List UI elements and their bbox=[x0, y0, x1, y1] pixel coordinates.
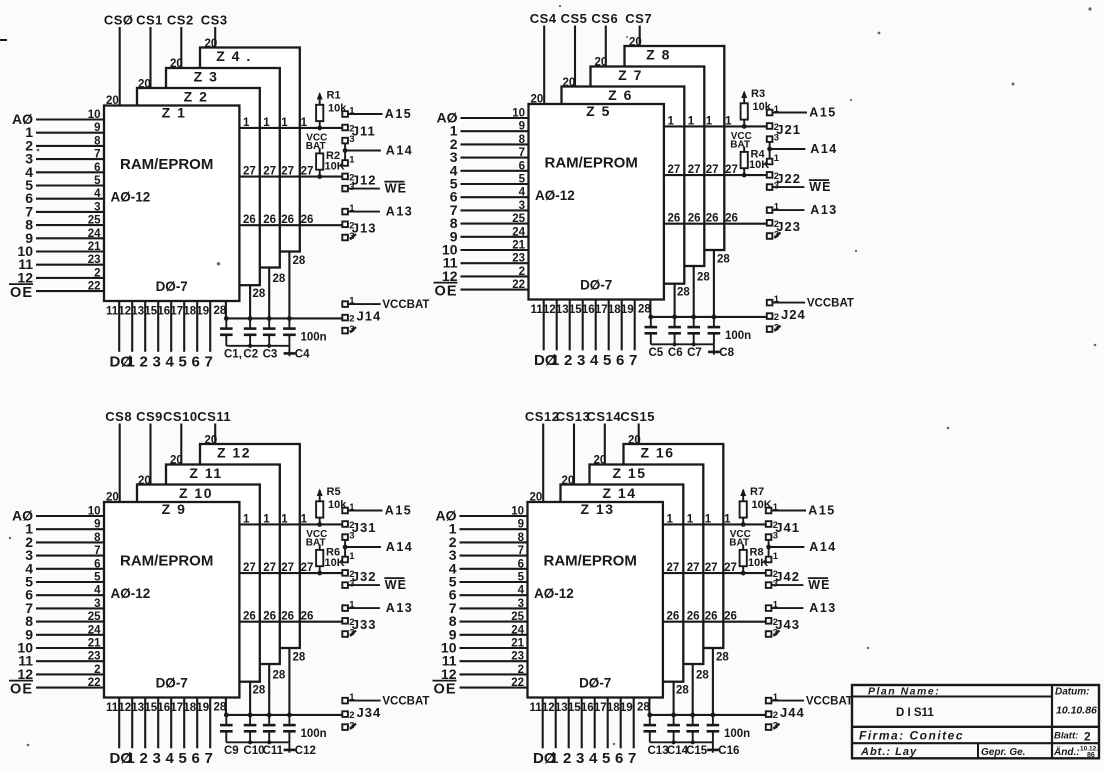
svg-text:26: 26 bbox=[301, 214, 314, 226]
IC Z 15 (RAM/EPROM) bbox=[590, 465, 704, 665]
wire CS2 to Z 3 pin 20 bbox=[180, 27, 182, 68]
svg-text:100n: 100n bbox=[725, 330, 751, 342]
svg-text:AØ-12: AØ-12 bbox=[111, 586, 151, 601]
svg-text:6: 6 bbox=[615, 750, 623, 766]
junction node A14 tap bbox=[767, 147, 772, 152]
connector J23 bbox=[767, 202, 801, 241]
wire 8 to Z 13 pin 25 bbox=[460, 621, 528, 623]
IC Z 16 (RAM/EPROM) bbox=[624, 444, 724, 648]
svg-text:23: 23 bbox=[88, 254, 101, 266]
junction node cap common 2 bbox=[267, 740, 271, 744]
svg-text:C13: C13 bbox=[648, 745, 669, 757]
svg-text:A14: A14 bbox=[809, 540, 836, 554]
wire CS13 to Z 14 pin 20 bbox=[573, 424, 575, 485]
IC Z 4 (RAM/EPROM) bbox=[200, 48, 300, 252]
svg-text:28: 28 bbox=[716, 652, 729, 664]
wire data D2 to Z 9 pin 13 bbox=[144, 698, 146, 749]
J34 pin 3 tick mark bbox=[350, 724, 356, 730]
svg-text:3: 3 bbox=[576, 750, 584, 766]
wire J pin3 to WE bbox=[348, 584, 380, 586]
wire data D0 to Z 9 pin 11 bbox=[118, 698, 120, 749]
wire 7 to Z 13 pin 3 bbox=[460, 607, 528, 609]
svg-text:C16: C16 bbox=[718, 745, 739, 757]
svg-text:1: 1 bbox=[243, 117, 250, 129]
svg-text:24: 24 bbox=[88, 624, 101, 636]
svg-text:28: 28 bbox=[717, 254, 730, 266]
junction node capacitor/bus bbox=[267, 713, 272, 718]
svg-text:2: 2 bbox=[140, 750, 148, 766]
IC Z 13 (RAM/EPROM) bbox=[528, 501, 663, 698]
svg-text:20: 20 bbox=[106, 95, 119, 107]
junction node cap common 1 bbox=[248, 344, 252, 348]
junction node capacitor/bus bbox=[690, 713, 695, 718]
wire J pin1 to A15 bbox=[348, 510, 383, 512]
wire 4 to Z 9 pin 6 bbox=[36, 568, 104, 570]
junction node R7/pin1 row bbox=[741, 522, 746, 527]
wire 1 to Z 9 pin 9 bbox=[36, 528, 104, 530]
svg-text:4: 4 bbox=[94, 585, 101, 597]
connector J44 bbox=[766, 692, 805, 732]
wire OE to Z 5 pin 22 bbox=[461, 289, 529, 291]
wire Z 2 pin 28 to VCCBAT bus bbox=[249, 285, 251, 318]
svg-text:21: 21 bbox=[511, 638, 524, 650]
wire Z 4 pin 28 to VCCBAT bus bbox=[288, 252, 290, 319]
svg-text:8: 8 bbox=[519, 134, 526, 146]
svg-text:26: 26 bbox=[688, 213, 701, 225]
svg-text:27: 27 bbox=[688, 164, 701, 176]
svg-text:15: 15 bbox=[569, 304, 582, 316]
svg-text:Z 14: Z 14 bbox=[602, 485, 636, 501]
wire CS8 to Z 9 pin 20 bbox=[119, 424, 121, 503]
svg-text:25: 25 bbox=[512, 213, 525, 225]
connector J32 bbox=[342, 551, 376, 590]
svg-text:5: 5 bbox=[94, 572, 101, 584]
svg-text:26: 26 bbox=[243, 611, 256, 623]
svg-text:J21: J21 bbox=[776, 122, 801, 137]
svg-text:22: 22 bbox=[88, 281, 101, 293]
svg-text:3: 3 bbox=[577, 352, 585, 369]
wire data D3 to Z 9 pin 15 bbox=[157, 698, 159, 749]
svg-text:5: 5 bbox=[518, 572, 525, 584]
svg-text:12: 12 bbox=[17, 269, 33, 285]
wire data D6 to Z 13 pin 18 bbox=[620, 698, 622, 749]
svg-text:28: 28 bbox=[677, 287, 690, 299]
connector J13 bbox=[342, 203, 376, 242]
IC Z 5 (RAM/EPROM) bbox=[529, 103, 664, 300]
IC Z 8 (RAM/EPROM) bbox=[625, 46, 725, 250]
wire J pin1 to A15 bbox=[348, 113, 383, 115]
capacitor C6 100n bbox=[668, 317, 681, 344]
wire data D2 to Z 13 pin 13 bbox=[568, 698, 570, 749]
wire data D2 to Z 5 pin 13 bbox=[569, 300, 571, 351]
svg-text:22: 22 bbox=[88, 677, 101, 689]
connector J33 bbox=[342, 600, 376, 639]
svg-text:4: 4 bbox=[166, 354, 175, 371]
svg-text:17: 17 bbox=[170, 306, 183, 318]
wire 9 to Z 13 pin 24 bbox=[460, 634, 528, 636]
wire J pin1 to A13 bbox=[771, 607, 803, 609]
wire VCCBAT bus (pin 28 row) bbox=[226, 714, 342, 716]
svg-text:J13: J13 bbox=[352, 220, 377, 235]
wire pin 1 row (A15/CS side) bbox=[239, 127, 342, 129]
svg-text:CSØ: CSØ bbox=[104, 12, 134, 27]
wire Z 16 pin 28 to VCCBAT bus bbox=[712, 648, 714, 715]
svg-text:Z 11: Z 11 bbox=[189, 465, 222, 481]
wire 9 to Z 1 pin 24 bbox=[36, 237, 104, 239]
wire J pin1 to A13 bbox=[772, 209, 804, 211]
wire J pin3 to J pin1 (A14 select) bbox=[344, 540, 346, 557]
svg-text:26: 26 bbox=[281, 611, 294, 623]
svg-text:12: 12 bbox=[17, 666, 33, 682]
wire data D4 to Z 13 pin 16 bbox=[594, 698, 596, 749]
svg-text:28: 28 bbox=[676, 685, 689, 697]
svg-text:7: 7 bbox=[94, 545, 100, 557]
svg-text:24: 24 bbox=[512, 226, 525, 238]
IC Z 2 (RAM/EPROM) bbox=[137, 88, 260, 285]
svg-text:22: 22 bbox=[511, 677, 524, 689]
capacitor C16 100n bbox=[707, 715, 720, 742]
svg-text:Z 8: Z 8 bbox=[646, 47, 671, 63]
IC Z 7 (RAM/EPROM) bbox=[591, 67, 705, 267]
svg-text:13: 13 bbox=[131, 702, 144, 714]
wire OE to Z 13 pin 22 bbox=[460, 687, 528, 689]
svg-text:21: 21 bbox=[88, 241, 101, 253]
svg-text:27: 27 bbox=[263, 562, 276, 574]
wire pin 1 row (A15/CS side) bbox=[663, 523, 766, 525]
svg-text:J44: J44 bbox=[780, 705, 805, 720]
svg-text:9: 9 bbox=[519, 121, 525, 133]
ground stub at last capacitor bbox=[707, 742, 719, 752]
svg-text:J23: J23 bbox=[776, 219, 801, 234]
svg-text:WE: WE bbox=[808, 578, 830, 592]
svg-text:A15: A15 bbox=[385, 504, 412, 518]
svg-text:1: 1 bbox=[349, 551, 355, 562]
svg-text:1: 1 bbox=[668, 115, 675, 127]
wire capacitor common bbox=[226, 741, 289, 743]
svg-text:OE: OE bbox=[10, 682, 33, 698]
svg-text:CS9: CS9 bbox=[136, 409, 163, 424]
wire A0 to Z 9 pin 10 bbox=[36, 515, 104, 517]
wire pin 26 row (A13) bbox=[239, 621, 342, 623]
wire J pin1 to VCCBAT bbox=[348, 303, 381, 305]
connector J43 bbox=[766, 600, 800, 639]
svg-text:DØ-7: DØ-7 bbox=[156, 279, 188, 294]
svg-text:27: 27 bbox=[687, 562, 700, 574]
svg-text:5: 5 bbox=[603, 352, 611, 369]
svg-text:27: 27 bbox=[667, 562, 680, 574]
svg-text:C3: C3 bbox=[263, 349, 278, 361]
wire A0 to Z 1 pin 10 bbox=[36, 118, 104, 120]
wire Z 5 pin 28 to VCCBAT bus bbox=[649, 300, 651, 317]
junction node capacitor/bus bbox=[648, 315, 653, 320]
junction node cap common 1 bbox=[672, 740, 676, 744]
svg-text:27: 27 bbox=[301, 562, 314, 574]
wire pin 27 row (WE) bbox=[239, 176, 342, 178]
svg-text:26: 26 bbox=[724, 611, 737, 623]
wire CS1 to Z 2 pin 20 bbox=[149, 27, 151, 88]
wire data D4 to Z 9 pin 16 bbox=[170, 698, 172, 749]
junction node cap common 2 bbox=[692, 342, 696, 346]
svg-text:25: 25 bbox=[88, 215, 101, 227]
svg-text:16: 16 bbox=[157, 306, 170, 318]
wire 10 to Z 9 pin 21 bbox=[36, 647, 104, 649]
svg-text:Abt.: Lay: Abt.: Lay bbox=[860, 746, 917, 758]
wire data D7 to Z 5 pin 19 bbox=[634, 300, 636, 351]
wire Z 1 pin 28 to VCCBAT bus bbox=[225, 301, 227, 318]
svg-text:18: 18 bbox=[608, 304, 621, 316]
connector J22 bbox=[767, 153, 801, 192]
svg-text:18: 18 bbox=[183, 702, 196, 714]
wire Z 13 pin 28 to VCCBAT bus bbox=[648, 698, 650, 715]
junction node cap common 1 bbox=[673, 342, 677, 346]
svg-text:3: 3 bbox=[518, 598, 524, 610]
svg-text:5: 5 bbox=[602, 750, 610, 766]
svg-text:6: 6 bbox=[94, 162, 100, 174]
svg-text:CS15: CS15 bbox=[620, 409, 655, 424]
svg-text:Z 13: Z 13 bbox=[580, 501, 614, 517]
svg-text:7: 7 bbox=[629, 352, 637, 369]
svg-text:16: 16 bbox=[157, 702, 170, 714]
wire Z 9 pin 28 to VCCBAT bus bbox=[225, 698, 227, 715]
svg-text:A14: A14 bbox=[386, 144, 413, 158]
junction node capacitor/bus bbox=[711, 713, 716, 718]
svg-text:Gepr. Ge.: Gepr. Ge. bbox=[981, 747, 1025, 758]
svg-text:13: 13 bbox=[131, 306, 144, 318]
IC Z 1 (RAM/EPROM) bbox=[104, 105, 239, 302]
svg-text:AØ-12: AØ-12 bbox=[534, 586, 574, 601]
connector J11 bbox=[342, 106, 375, 146]
wire 6 to Z 13 pin 4 bbox=[460, 594, 528, 596]
wire 7 to Z 5 pin 3 bbox=[461, 209, 529, 211]
svg-text:7: 7 bbox=[205, 354, 213, 371]
junction node capacitor/bus bbox=[248, 713, 253, 718]
svg-text:CS7: CS7 bbox=[625, 11, 652, 26]
svg-text:C4: C4 bbox=[295, 349, 310, 361]
connector J34 bbox=[342, 692, 381, 732]
wire CS9 to Z 10 pin 20 bbox=[149, 424, 151, 485]
svg-text:CS13: CS13 bbox=[556, 409, 591, 424]
wire A0 to Z 13 pin 10 bbox=[460, 515, 528, 517]
svg-text:25: 25 bbox=[88, 611, 101, 623]
wire 12 to Z 13 pin 2 bbox=[460, 673, 528, 675]
svg-text:28: 28 bbox=[637, 702, 650, 714]
J23 pin 3 tick mark bbox=[775, 233, 781, 239]
svg-text:A15: A15 bbox=[809, 106, 836, 120]
wire J pin1 to A15 bbox=[772, 112, 807, 114]
svg-text:23: 23 bbox=[88, 651, 101, 663]
svg-text:27: 27 bbox=[281, 562, 294, 574]
wire CS4 to Z 5 pin 20 bbox=[543, 26, 545, 105]
svg-text:BAT: BAT bbox=[306, 141, 326, 152]
connector J12 bbox=[342, 155, 376, 194]
svg-text:12: 12 bbox=[118, 306, 131, 318]
svg-text:BAT: BAT bbox=[306, 538, 326, 549]
svg-text:19: 19 bbox=[621, 304, 634, 316]
resistor R4 10K bbox=[741, 147, 770, 176]
wire pin 1 row (A15/CS side) bbox=[664, 125, 767, 127]
wire Z 8 pin 28 to VCCBAT bus bbox=[713, 250, 715, 317]
svg-text:12: 12 bbox=[442, 268, 458, 284]
svg-text:CS5: CS5 bbox=[561, 11, 588, 26]
svg-text:26: 26 bbox=[687, 611, 700, 623]
svg-text:Z 3: Z 3 bbox=[194, 69, 219, 85]
wire data D7 to Z 13 pin 19 bbox=[633, 698, 635, 749]
svg-text:J34: J34 bbox=[357, 705, 382, 720]
wire data D1 to Z 5 pin 12 bbox=[556, 300, 558, 351]
wire data D1 to Z 1 pin 12 bbox=[131, 301, 133, 352]
resistor R5 10k bbox=[316, 486, 347, 525]
svg-text:17: 17 bbox=[595, 304, 608, 316]
svg-text:1: 1 bbox=[724, 513, 731, 525]
svg-text:4: 4 bbox=[94, 188, 101, 200]
svg-text:20: 20 bbox=[531, 94, 544, 106]
junction node cap common 2 bbox=[691, 740, 695, 744]
svg-text:26: 26 bbox=[263, 611, 276, 623]
wire to A14 bbox=[345, 546, 381, 548]
svg-text:2: 2 bbox=[1084, 730, 1091, 744]
IC Z 9 (RAM/EPROM) bbox=[104, 501, 239, 698]
capacitor C1 100n bbox=[220, 318, 233, 345]
svg-text:D I S11: D I S11 bbox=[896, 707, 934, 719]
wire 7 to Z 9 pin 3 bbox=[36, 607, 104, 609]
resistor R2 10K bbox=[316, 148, 345, 177]
wire 6 to Z 1 pin 4 bbox=[36, 198, 104, 200]
svg-text:2: 2 bbox=[518, 664, 524, 676]
wire Z 7 pin 28 to VCCBAT bus bbox=[693, 266, 695, 317]
svg-text:1: 1 bbox=[705, 513, 712, 525]
svg-text:Z 2: Z 2 bbox=[184, 89, 209, 105]
svg-text:7: 7 bbox=[518, 545, 524, 557]
svg-text:Blatt:: Blatt: bbox=[1054, 731, 1078, 742]
svg-text:86: 86 bbox=[1087, 752, 1095, 759]
svg-text:C11: C11 bbox=[263, 745, 284, 757]
wire 10 to Z 13 pin 21 bbox=[460, 647, 528, 649]
wire to A14 bbox=[769, 546, 805, 548]
svg-text:A13: A13 bbox=[810, 203, 837, 217]
wire pin 27 row (WE) bbox=[239, 572, 342, 574]
wire 3 to Z 1 pin 7 bbox=[36, 158, 104, 160]
svg-text:1: 1 bbox=[550, 750, 558, 766]
svg-text:1: 1 bbox=[706, 115, 713, 127]
wire data D3 to Z 13 pin 15 bbox=[581, 698, 583, 749]
svg-text:C12: C12 bbox=[295, 745, 316, 757]
svg-text:DØ-7: DØ-7 bbox=[579, 676, 611, 691]
wire 4 to Z 5 pin 6 bbox=[461, 170, 529, 172]
svg-text:24: 24 bbox=[88, 228, 101, 240]
wire 8 to Z 5 pin 25 bbox=[461, 223, 529, 225]
svg-text:A14: A14 bbox=[810, 142, 837, 156]
capacitor C8 100n bbox=[708, 317, 721, 344]
svg-text:5: 5 bbox=[519, 174, 526, 186]
wire J pin1 to A15 bbox=[771, 510, 806, 512]
svg-text:C15: C15 bbox=[686, 745, 708, 757]
wire J pin1 to A13 bbox=[348, 211, 380, 213]
junction node A14 tap bbox=[343, 148, 348, 153]
wire data D5 to Z 5 pin 17 bbox=[608, 300, 610, 351]
svg-text:VCCBAT: VCCBAT bbox=[382, 299, 429, 311]
svg-text:28: 28 bbox=[214, 305, 227, 317]
junction node capacitor/bus bbox=[248, 316, 253, 321]
svg-text:R1: R1 bbox=[327, 89, 341, 101]
wire capacitor common bbox=[650, 741, 713, 743]
wire CS10 to Z 11 pin 20 bbox=[180, 424, 182, 465]
svg-text:11: 11 bbox=[106, 306, 119, 318]
wire 6 to Z 5 pin 4 bbox=[461, 196, 529, 198]
wire data D6 to Z 1 pin 18 bbox=[196, 301, 198, 352]
wire J pin1 to A13 bbox=[348, 607, 380, 609]
edge mark bbox=[0, 39, 7, 41]
svg-text:28: 28 bbox=[293, 255, 306, 267]
wire 2 to Z 13 pin 8 bbox=[460, 541, 528, 543]
svg-text:20: 20 bbox=[530, 492, 543, 504]
junction node capacitor/bus bbox=[691, 315, 696, 320]
junction node R2/pin27 row bbox=[317, 174, 322, 179]
wire CS15 to Z 16 pin 20 bbox=[638, 424, 640, 445]
svg-text:J12: J12 bbox=[352, 172, 377, 187]
svg-text:CS2: CS2 bbox=[167, 12, 194, 27]
title block frame bbox=[852, 685, 1099, 758]
svg-text:12: 12 bbox=[441, 666, 457, 682]
wire 8 to Z 9 pin 25 bbox=[36, 621, 104, 623]
svg-text:23: 23 bbox=[511, 651, 524, 663]
svg-text:12: 12 bbox=[543, 304, 556, 316]
svg-text:28: 28 bbox=[273, 273, 286, 285]
junction node R6/pin27 row bbox=[317, 571, 322, 576]
svg-text:2: 2 bbox=[140, 354, 148, 371]
wire VCCBAT bus (pin 28 row) bbox=[649, 714, 765, 716]
wire data D1 to Z 13 pin 12 bbox=[555, 698, 557, 749]
svg-text:19: 19 bbox=[196, 702, 209, 714]
junction node A14 tap bbox=[766, 545, 771, 550]
wire pin 26 row (A13) bbox=[663, 621, 766, 623]
svg-text:BAT: BAT bbox=[730, 140, 750, 151]
svg-text:BAT: BAT bbox=[729, 538, 749, 549]
wire 5 to Z 9 pin 5 bbox=[36, 581, 104, 583]
wire Z 11 pin 28 to VCCBAT bus bbox=[268, 664, 270, 715]
svg-text:4: 4 bbox=[166, 750, 175, 766]
svg-text:1: 1 bbox=[281, 117, 288, 129]
svg-text:AØ-12: AØ-12 bbox=[111, 190, 151, 205]
wire J pin3 to J pin1 (A14 select) bbox=[769, 142, 771, 159]
wire data D5 to Z 1 pin 17 bbox=[183, 301, 185, 352]
svg-text:Datum:: Datum: bbox=[1055, 687, 1089, 698]
svg-text:A14: A14 bbox=[386, 540, 413, 554]
wire CSØ to Z 1 pin 20 bbox=[119, 27, 121, 106]
svg-text:RAM/EPROM: RAM/EPROM bbox=[120, 156, 213, 173]
junction node capacitor/bus bbox=[267, 316, 272, 321]
svg-text:20: 20 bbox=[138, 475, 151, 487]
svg-text:RAM/EPROM: RAM/EPROM bbox=[545, 155, 638, 172]
svg-text:C7: C7 bbox=[687, 347, 702, 359]
svg-text:WE: WE bbox=[809, 180, 831, 194]
wire data D7 to Z 9 pin 19 bbox=[209, 698, 211, 749]
svg-text:26: 26 bbox=[263, 214, 276, 226]
svg-text:R7: R7 bbox=[750, 486, 764, 498]
wire J pin3 to WE bbox=[348, 188, 380, 190]
svg-text:AØ-12: AØ-12 bbox=[535, 188, 575, 203]
wire CS6 to Z 7 pin 20 bbox=[605, 26, 607, 67]
junction node R1/pin1 row bbox=[317, 126, 322, 131]
svg-text:24: 24 bbox=[511, 624, 524, 636]
svg-text:20: 20 bbox=[562, 475, 575, 487]
wire Z 10 pin 28 to VCCBAT bus bbox=[249, 682, 251, 715]
svg-text:15: 15 bbox=[144, 306, 157, 318]
svg-text:RAM/EPROM: RAM/EPROM bbox=[120, 553, 213, 570]
svg-text:1: 1 bbox=[667, 513, 674, 525]
capacitor C10 100n bbox=[244, 715, 257, 742]
wire 12 to Z 9 pin 2 bbox=[36, 673, 104, 675]
capacitor C15 100n bbox=[686, 715, 699, 742]
